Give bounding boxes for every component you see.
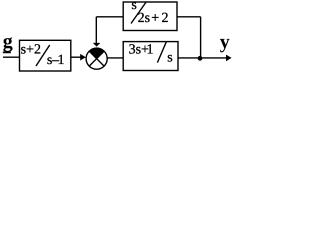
block diagram (control system): [0, 0, 243, 113]
value label s/(2s+2): [131, 0, 168, 26]
fraction slash of G2: [131, 2, 147, 24]
block G3 (3s+1)/s: [123, 42, 178, 71]
filled top quadrant of summing junction: [89, 48, 104, 59]
X diagonal 2: [89, 51, 104, 66]
wire input g to block G1: [3, 56, 20, 58]
block G1 (s+2)/(s-1): [20, 40, 71, 71]
fraction slash of G3: [157, 42, 166, 63]
node y (output label): [220, 31, 230, 53]
block G2 s/(2s+2) feedback: [123, 2, 177, 31]
fraction slash of G1: [36, 45, 50, 66]
svg-text:s–1: s–1: [47, 53, 65, 68]
X diagonal 1: [89, 51, 104, 66]
svg-text:3s+1: 3s+1: [129, 43, 154, 58]
svg-text:s: s: [131, 0, 136, 13]
wire feedback horizontal to block G2: [96, 16, 123, 18]
svg-text:2s+2: 2s+2: [138, 11, 169, 26]
svg-text:s+2: s+2: [21, 43, 41, 58]
summing junction (circle with X, top quadrant filled): [86, 48, 107, 69]
node g (input label, underlined): [3, 31, 13, 53]
svg-text:s: s: [167, 51, 172, 66]
value label (s+2)/(s-1): [21, 43, 65, 69]
junction dot (takeoff point): [198, 56, 203, 61]
wire feedback vertical down into summing junction: [95, 17, 97, 44]
arrowhead output: [226, 55, 232, 62]
arrowhead into summing junction: [80, 54, 86, 61]
value label (3s+1)/s: [129, 43, 173, 66]
wire G2 right side to feedback takeoff: [177, 16, 201, 18]
svg-text:y: y: [220, 31, 230, 53]
svg-text:g: g: [3, 31, 13, 53]
wire G3 to output: [178, 57, 227, 59]
wire feedback takeoff vertical: [200, 17, 202, 58]
wire summing junction to block G3: [107, 57, 123, 59]
arrowhead down into summing junction: [93, 43, 101, 47]
g underline: [3, 51, 11, 53]
wire G1 to summing junction: [71, 56, 81, 58]
